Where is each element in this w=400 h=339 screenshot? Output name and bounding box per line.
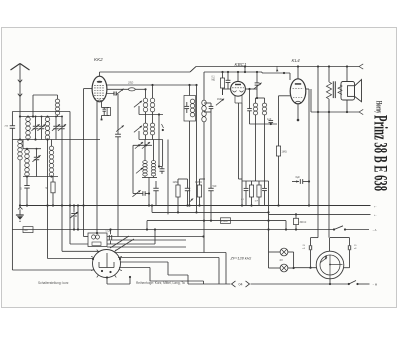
- svg-text:− M: − M: [373, 282, 378, 286]
- svg-text:25Ω: 25Ω: [127, 81, 134, 85]
- svg-text:1MΩ: 1MΩ: [217, 98, 222, 101]
- svg-text:300 Ω: 300 Ω: [300, 221, 307, 224]
- svg-text:0,1MΩ: 0,1MΩ: [195, 182, 202, 184]
- svg-text:1M: 1M: [24, 229, 27, 232]
- svg-text:04: 04: [239, 283, 243, 287]
- svg-text:Reihenfolge: Kurz, Mittel, La: Reihenfolge: Kurz, Mittel, Lang, Ta: [136, 281, 185, 285]
- svg-text:ZF=128 kHz: ZF=128 kHz: [230, 257, 252, 261]
- svg-text:1MΩ: 1MΩ: [173, 182, 178, 184]
- svg-text:6μF: 6μF: [296, 176, 301, 179]
- svg-text:− A: − A: [373, 228, 377, 232]
- svg-text:5nF: 5nF: [213, 185, 218, 188]
- svg-text:+ ·: + ·: [374, 213, 377, 217]
- svg-text:KL4: KL4: [292, 58, 301, 63]
- svg-text:1MΩ: 1MΩ: [282, 151, 287, 154]
- svg-text:0,1MΩ: 0,1MΩ: [221, 221, 228, 223]
- svg-text:+ ·: + ·: [374, 204, 377, 208]
- svg-text:KK2: KK2: [94, 57, 103, 62]
- svg-text:Schalterstellung: kurz: Schalterstellung: kurz: [38, 281, 69, 285]
- svg-text:Horny: Horny: [375, 101, 385, 114]
- svg-text:MΩ: MΩ: [212, 80, 216, 82]
- svg-text:2V: 2V: [280, 258, 284, 262]
- svg-text:Prinz 38 B E 638: Prinz 38 B E 638: [370, 115, 391, 191]
